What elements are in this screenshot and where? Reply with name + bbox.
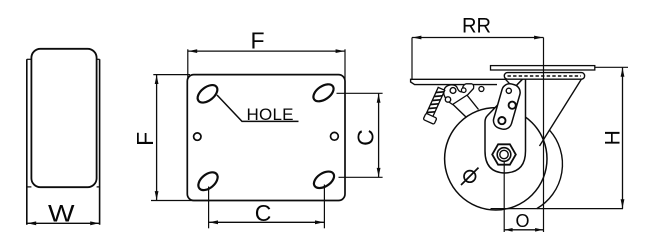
dimension C right: extension line top [337, 92, 383, 94]
caster view: diameter symbol circle [464, 171, 476, 183]
dimension C right: extension line bottom [339, 176, 383, 178]
left view: wheel tire outline [31, 49, 96, 187]
HOLE callout leader line [217, 95, 299, 121]
caster view: fork pivot circle [479, 87, 484, 92]
left view: tire shoulder tick bottom-left [27, 186, 32, 188]
caster view: head plate rivet upper [509, 102, 516, 109]
caster view: wheel outer circle [445, 108, 547, 210]
dimension O: dimension line [504, 229, 543, 231]
dimension F top: dimension line [188, 50, 345, 52]
caster view: brake pivot circle A [450, 88, 456, 94]
left view: tire shoulder tick bottom-right [97, 186, 100, 188]
svg-text:F: F [132, 132, 158, 146]
caster view: brake cam plate [444, 84, 474, 105]
dimension F top: extension line left [187, 49, 189, 79]
caster view: wheel far-side rim arc [537, 130, 563, 208]
caster view: swivel head plate [492, 82, 522, 131]
dimension C bottom: left arrowhead [209, 220, 218, 224]
top view: mounting plate outline [187, 75, 345, 201]
caster view: brake pivot circle B [461, 88, 466, 93]
svg-text:C: C [255, 200, 272, 226]
dimension O: left extension line [503, 162, 505, 232]
svg-text:W: W [48, 201, 75, 228]
svg-text:RR: RR [462, 15, 491, 38]
caster view: brake pivot circle C [445, 97, 450, 102]
dimension RR: right arrowhead [534, 36, 543, 40]
dimension RR: left arrowhead [412, 36, 421, 40]
caster view: axle circle [500, 150, 508, 158]
dimension C bottom: extension line right [323, 185, 325, 229]
caster view: top mounting plate bar [491, 66, 595, 70]
caster view: diameter symbol slash [461, 168, 479, 185]
caster view: fork yoke (wraps wheel hub) [485, 79, 526, 173]
dimension C right: dimension line [378, 93, 380, 177]
dimension F top: extension line right [344, 49, 346, 79]
dimension C bottom: extension line left [208, 187, 210, 229]
dimension O: right arrowhead [535, 228, 543, 232]
top view: slot hole bottom-right [311, 168, 337, 191]
caster view: brake pedal foot pad [423, 113, 437, 124]
dimension W: dimension line [27, 222, 100, 224]
left view: tire shoulder tick top-left [27, 58, 32, 60]
top view: slot hole bottom-left [195, 169, 221, 194]
dimension F left: dimension line [156, 75, 158, 201]
top view: small hole right [331, 132, 339, 140]
left view: tire left edge line [26, 59, 28, 225]
caster view: ground line / H bottom extension [491, 208, 624, 210]
svg-text:O: O [515, 211, 529, 231]
top view: small hole left [194, 133, 201, 140]
dimension RR: left extension line [411, 38, 413, 80]
svg-text:C: C [352, 129, 378, 146]
svg-text:HOLE: HOLE [247, 105, 294, 124]
caster view: head plate rivet top [506, 88, 511, 93]
caster view: wheel hub hex nut [492, 144, 516, 164]
svg-text:F: F [250, 27, 264, 53]
dimension C bottom: dimension line [209, 221, 325, 223]
caster view: brake shoe arm band [453, 95, 479, 118]
caster view: head plate rivet lower [498, 117, 505, 124]
dimension C bottom: right arrowhead [315, 220, 324, 224]
dimension RR: dimension line [412, 37, 544, 39]
dimension H: top extension line [595, 66, 628, 68]
dimension F top: right arrowhead [336, 49, 345, 53]
top view: slot hole top-right [310, 81, 336, 105]
left view: tire right edge line [99, 59, 101, 225]
caster view: swivel axis centerline / O right extension [543, 38, 545, 233]
svg-text:H: H [602, 130, 625, 145]
caster view: brake pedal lever (hatched) [426, 87, 445, 118]
dimension F left: bottom arrowhead [155, 191, 159, 200]
dimension H: top arrowhead [621, 68, 625, 77]
dimension C right: bottom arrowhead [377, 168, 381, 177]
top view: plate top edge extension (left) [153, 74, 190, 76]
caster view: hub washer circle [497, 148, 511, 162]
dimension C right: top arrowhead [377, 94, 381, 103]
dimension F top: left arrowhead [188, 49, 197, 53]
dimension H: dimension line [622, 67, 624, 208]
caster view: swivel raceway [504, 73, 584, 80]
dimension O: left arrowhead [505, 228, 513, 232]
left view: tire shoulder tick top-right [97, 58, 100, 60]
dimension W: left arrowhead [27, 221, 36, 225]
dimension F left: top arrowhead [155, 75, 159, 84]
dimension W: right arrowhead [90, 221, 99, 225]
caster view: raceway ball dashed line [508, 75, 582, 77]
top view: slot hole top-left [194, 82, 220, 106]
dimension H: bottom arrowhead [621, 199, 625, 208]
caster view: fork neck diagonal front [505, 79, 526, 101]
caster view: fork right edge [540, 79, 582, 146]
caster view: brake bracket bar [411, 79, 506, 84]
top view: plate bottom edge extension (left) [151, 200, 210, 202]
